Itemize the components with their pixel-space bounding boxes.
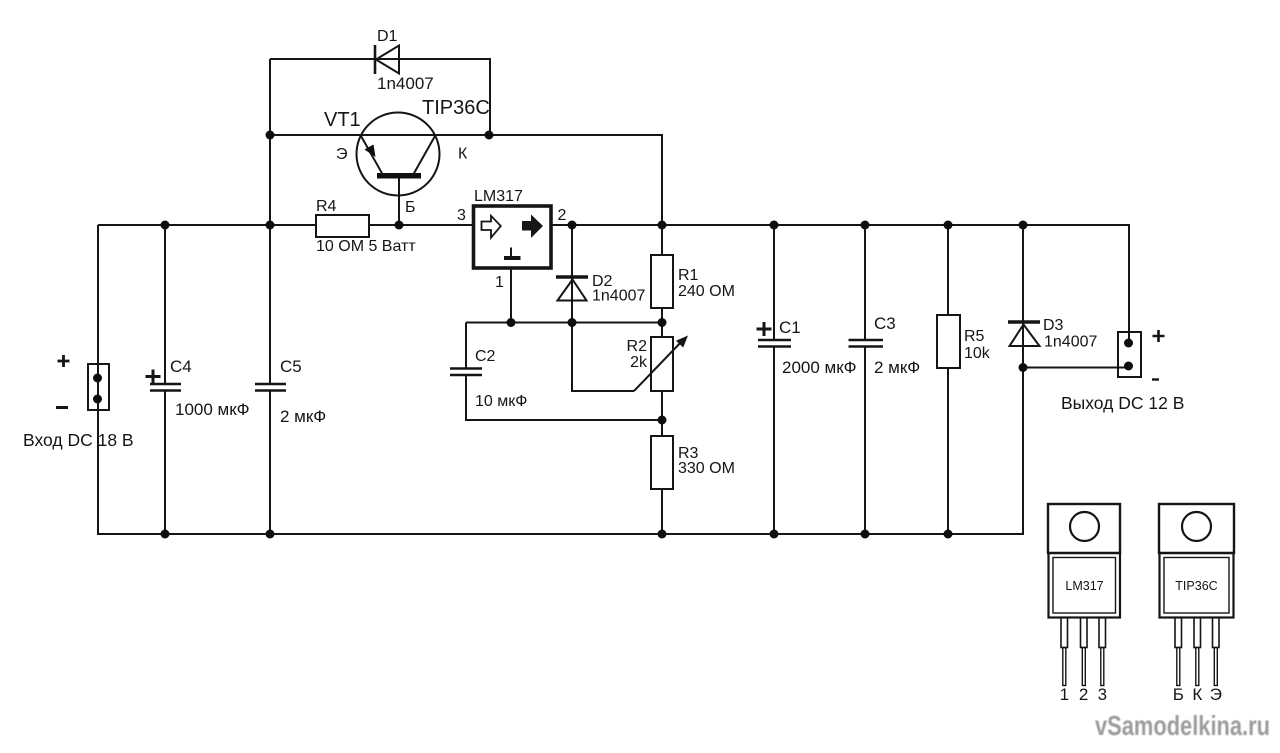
svg-text:Б: Б: [405, 199, 416, 216]
svg-text:Э: Э: [1210, 685, 1222, 704]
svg-text:TIP36C: TIP36C: [422, 97, 490, 119]
svg-text:1: 1: [495, 274, 504, 291]
svg-text:C4: C4: [170, 357, 192, 376]
svg-text:vSamodelkina.ru: vSamodelkina.ru: [1095, 710, 1270, 741]
svg-text:1n4007: 1n4007: [1044, 334, 1097, 351]
svg-text:К: К: [458, 146, 468, 163]
svg-text:10 ОМ 5 Ватт: 10 ОМ 5 Ватт: [316, 238, 416, 255]
svg-text:R5: R5: [964, 328, 985, 345]
svg-text:2: 2: [1079, 685, 1088, 704]
svg-text:2k: 2k: [630, 354, 648, 371]
svg-text:К: К: [1192, 685, 1202, 704]
svg-text:C5: C5: [280, 357, 302, 376]
svg-text:R2: R2: [627, 338, 648, 355]
svg-text:1n4007: 1n4007: [592, 288, 645, 305]
svg-text:LM317: LM317: [474, 188, 523, 205]
svg-text:D3: D3: [1043, 317, 1064, 334]
svg-text:1: 1: [1060, 685, 1069, 704]
svg-text:R4: R4: [316, 198, 337, 215]
svg-text:10k: 10k: [964, 345, 991, 362]
svg-text:Б: Б: [1173, 685, 1184, 704]
svg-text:3: 3: [1098, 685, 1107, 704]
svg-text:1000 мкФ: 1000 мкФ: [175, 400, 250, 419]
svg-text:240 ОМ: 240 ОМ: [678, 283, 735, 300]
svg-text:C1: C1: [779, 318, 801, 337]
svg-text:2: 2: [558, 207, 567, 224]
svg-text:2 мкФ: 2 мкФ: [874, 358, 920, 377]
svg-text:1n4007: 1n4007: [377, 74, 434, 93]
svg-text:Вход DC 18 В: Вход DC 18 В: [23, 430, 134, 450]
svg-text:330 ОМ: 330 ОМ: [678, 460, 735, 477]
svg-text:Выход DC 12 В: Выход DC 12 В: [1061, 393, 1184, 413]
svg-text:D1: D1: [377, 28, 398, 45]
svg-text:C2: C2: [475, 348, 496, 365]
svg-text:2000 мкФ: 2000 мкФ: [782, 358, 857, 377]
svg-text:10 мкФ: 10 мкФ: [475, 393, 527, 410]
svg-text:R1: R1: [678, 267, 699, 284]
svg-text:3: 3: [457, 207, 466, 224]
svg-text:Э: Э: [336, 146, 348, 163]
svg-text:2 мкФ: 2 мкФ: [280, 407, 326, 426]
svg-text:C3: C3: [874, 314, 896, 333]
svg-text:VT1: VT1: [324, 109, 361, 131]
svg-text:TIP36C: TIP36C: [1175, 579, 1217, 593]
svg-text:LM317: LM317: [1065, 579, 1103, 593]
